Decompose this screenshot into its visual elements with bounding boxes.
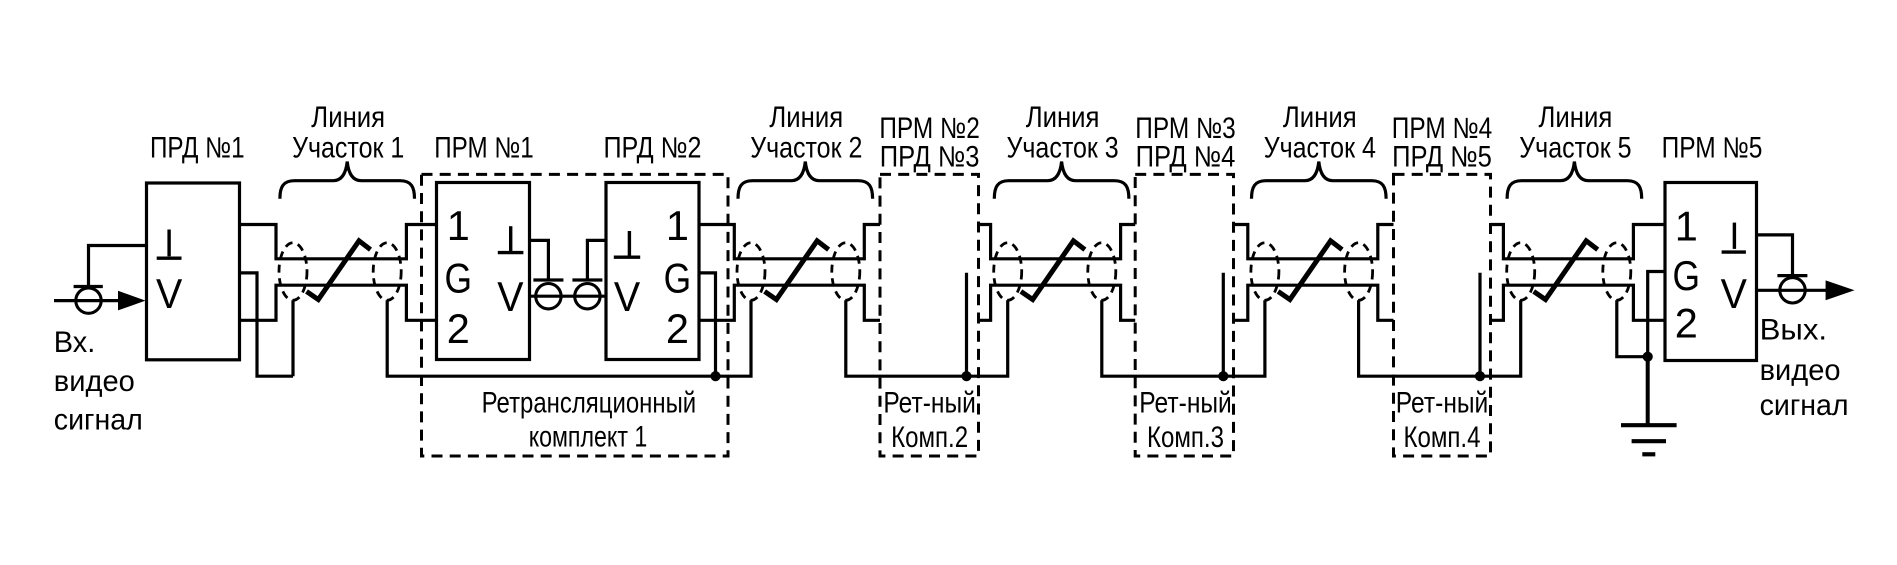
bus segment under box PRM4/PRD5 — [1359, 300, 1521, 376]
svg-text:Участок 3: Участок 3 — [1007, 132, 1119, 165]
svg-text:ПРД №4: ПРД №4 — [1136, 141, 1236, 174]
svg-text:Вх.: Вх. — [54, 326, 96, 359]
wire input signal line — [54, 299, 119, 302]
wire input shield to PRD1 — [89, 246, 147, 287]
svg-text:Рет-ный: Рет-ный — [1139, 386, 1232, 419]
line 4 right shield ellipse — [1345, 243, 1373, 301]
bus segment under box PRM3/PRD4 — [1102, 300, 1265, 376]
line 1 right shield ellipse — [373, 243, 401, 301]
input connector circle — [76, 288, 101, 313]
svg-text:G: G — [1673, 252, 1701, 299]
svg-text:2: 2 — [1675, 300, 1698, 347]
earth ground bar 1 — [1621, 423, 1677, 427]
svg-text:1: 1 — [1675, 203, 1698, 250]
PRM1 ground symbol stem — [509, 226, 512, 251]
connector circle A — [536, 284, 561, 309]
wire PRM1 shield to connector — [530, 240, 549, 281]
line 3 right shield ellipse — [1088, 243, 1116, 301]
dashed box: repeater unit PRM3/PRD4 — [1135, 174, 1233, 456]
line 4 bottom conductor with end steps — [1234, 285, 1394, 320]
wire PRD2 shield to connector — [587, 240, 606, 281]
PRM5 ground symbol bar — [1722, 250, 1746, 253]
junction dot box PRM4/PRD5 — [1475, 371, 1485, 381]
input connector shield bar — [74, 285, 103, 288]
svg-text:Комп.2: Комп.2 — [891, 421, 968, 454]
line 3 crossover slash — [1021, 241, 1085, 300]
ground stem — [1646, 357, 1650, 424]
svg-text:Участок 2: Участок 2 — [750, 132, 862, 165]
svg-text:видео: видео — [54, 365, 135, 398]
svg-text:V: V — [614, 273, 641, 320]
input arrowhead — [118, 291, 146, 311]
dashed box: repeater unit PRM2/PRD3 — [880, 174, 979, 456]
line 1 top conductor with end steps — [240, 225, 437, 259]
wire PRM5 shield to output connector — [1757, 235, 1793, 276]
svg-text:ПРД №2: ПРД №2 — [604, 132, 702, 165]
box PRM3/PRD4 internal shield stub — [1222, 273, 1225, 376]
line 3 left shield ellipse — [994, 243, 1022, 301]
earth ground bar 3 — [1642, 452, 1655, 456]
dashed box: repeater unit PRM4/PRD5 — [1394, 174, 1491, 456]
svg-text:G: G — [664, 255, 692, 302]
line 5 right shield ellipse — [1603, 243, 1631, 301]
bus segment line1-to-line2 shields — [387, 300, 751, 376]
bus segment under box PRM2/PRD3 — [846, 300, 1008, 376]
earth ground bar 2 — [1632, 439, 1666, 443]
output connector shield bar — [1777, 274, 1807, 277]
svg-text:комплект 1: комплект 1 — [529, 420, 648, 453]
block PRM5 (receiver 5) — [1665, 183, 1757, 361]
line 5 left shield ellipse — [1507, 243, 1535, 301]
svg-text:Линия: Линия — [769, 101, 843, 134]
line 2 bottom conductor with end steps — [699, 285, 880, 320]
block PRM1 (receiver 1) — [437, 183, 530, 360]
block PRD1 (transmitter 1) — [147, 183, 240, 360]
svg-text:ПРМ №1: ПРМ №1 — [434, 132, 534, 165]
PRD1 ground symbol bar — [157, 257, 182, 260]
dashed box: retransmission kit 1 — [422, 174, 729, 456]
svg-text:Линия: Линия — [1539, 101, 1613, 134]
wire PRM5 G terminal to ground node — [1648, 272, 1665, 357]
junction dot ground node — [1643, 352, 1653, 362]
line section 1: brace — [280, 162, 415, 199]
connector B shield bar — [572, 278, 602, 281]
wire PRD2 shield terminal down to bus — [699, 273, 716, 376]
PRD1 ground symbol stem — [167, 230, 170, 257]
svg-text:2: 2 — [447, 305, 470, 352]
svg-text:Участок 4: Участок 4 — [1264, 132, 1376, 165]
svg-text:V: V — [156, 270, 183, 317]
svg-text:ПРД №1: ПРД №1 — [150, 132, 245, 165]
wire PRD1 shield terminal to bus U — [240, 273, 294, 376]
svg-text:2: 2 — [666, 305, 689, 352]
line 4 top conductor with end steps — [1234, 225, 1394, 259]
wire PRM1 V out to PRD2 V in — [530, 295, 607, 298]
wire output signal line — [1757, 289, 1828, 292]
line section 2: brace — [738, 162, 873, 199]
line 1 crossover slash — [307, 241, 371, 300]
svg-text:ПРМ №5: ПРМ №5 — [1662, 132, 1763, 165]
svg-text:ПРД №5: ПРД №5 — [1392, 141, 1492, 174]
PRD2 ground symbol stem — [628, 231, 631, 256]
svg-text:Линия: Линия — [1026, 101, 1100, 134]
junction dot box PRM3/PRD4 — [1218, 371, 1228, 381]
PRD2 ground symbol bar — [614, 256, 640, 259]
line 1 bottom conductor with end steps — [240, 285, 437, 320]
line section 4: brace — [1252, 162, 1387, 199]
svg-text:Комп.4: Комп.4 — [1404, 421, 1481, 454]
line 4 crossover slash — [1278, 241, 1342, 300]
junction dot box PRM2/PRD3 — [961, 371, 971, 381]
block PRD2 (transmitter 2) — [606, 183, 699, 360]
output connector circle — [1780, 278, 1805, 303]
svg-text:G: G — [445, 255, 473, 302]
line 2 top conductor with end steps — [699, 225, 880, 259]
line 5 bottom conductor with end steps — [1491, 285, 1666, 320]
svg-text:Ретрансляционный: Ретрансляционный — [482, 386, 697, 419]
line 4 left shield ellipse — [1251, 243, 1279, 301]
connector A shield bar — [533, 278, 563, 281]
svg-text:V: V — [497, 273, 524, 320]
PRM1 ground symbol bar — [498, 251, 524, 254]
line 3 bottom conductor with end steps — [979, 285, 1136, 320]
svg-text:Участок 1: Участок 1 — [292, 132, 404, 165]
svg-text:Линия: Линия — [1283, 101, 1357, 134]
PRM5 ground symbol stem — [1733, 223, 1736, 249]
line 5 crossover slash — [1534, 241, 1598, 300]
svg-text:1: 1 — [666, 202, 689, 249]
line 2 crossover slash — [765, 241, 829, 300]
svg-text:Рет-ный: Рет-ный — [883, 386, 976, 419]
line 1 left shield ellipse — [279, 243, 307, 301]
svg-text:Участок 5: Участок 5 — [1519, 132, 1631, 165]
line 2 left shield ellipse — [737, 243, 765, 301]
svg-text:Вых.: Вых. — [1760, 313, 1828, 346]
line section 5: brace — [1507, 162, 1642, 199]
wire line5 right shield drop to ground node — [1617, 300, 1648, 356]
wire line1 left shield drop — [291, 300, 294, 376]
svg-text:1: 1 — [447, 202, 470, 249]
svg-text:Линия: Линия — [311, 101, 385, 134]
svg-text:V: V — [1721, 270, 1748, 317]
svg-text:сигнал: сигнал — [1760, 389, 1849, 422]
svg-text:сигнал: сигнал — [54, 404, 143, 437]
line 5 top conductor with end steps — [1491, 225, 1666, 259]
connector circle B — [575, 284, 600, 309]
box PRM2/PRD3 internal shield stub — [965, 273, 968, 376]
line 2 right shield ellipse — [832, 243, 860, 301]
svg-text:ПРД №3: ПРД №3 — [880, 141, 980, 174]
svg-text:видео: видео — [1760, 354, 1841, 387]
junction dot 1 — [710, 371, 720, 381]
box PRM4/PRD5 internal shield stub — [1478, 273, 1481, 376]
svg-text:Комп.3: Комп.3 — [1147, 421, 1224, 454]
svg-text:Рет-ный: Рет-ный — [1396, 386, 1489, 419]
line section 3: brace — [994, 162, 1129, 199]
output arrowhead — [1826, 280, 1855, 300]
line 3 top conductor with end steps — [979, 225, 1136, 259]
